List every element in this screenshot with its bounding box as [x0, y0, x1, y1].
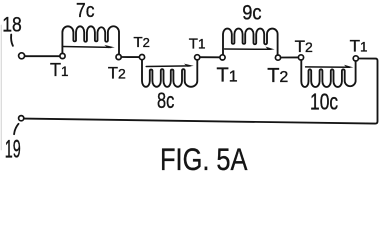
arrow 10c [306, 66, 350, 68]
node T1 of 7c [60, 53, 65, 58]
svg-text:T1: T1 [217, 65, 238, 87]
node T2 of 8c [139, 55, 144, 60]
arrow 8c [146, 65, 190, 68]
node T2 of 7c [116, 54, 121, 59]
svg-text:T2: T2 [267, 65, 288, 87]
node T1 of 9c [220, 55, 225, 60]
arrow 7c [63, 46, 111, 49]
svg-text:7c: 7c [76, 0, 95, 22]
wire [121, 56, 139, 58]
wire [25, 55, 60, 57]
svg-text:T2: T2 [295, 37, 313, 56]
svg-text:T2: T2 [108, 65, 126, 83]
svg-text:8c: 8c [157, 88, 174, 113]
svg-text:FIG. 5A: FIG. 5A [160, 141, 248, 174]
wire [200, 56, 220, 58]
svg-text:T2: T2 [134, 34, 150, 51]
node T1 of 10c [353, 56, 358, 61]
inductor 7c [62, 26, 119, 54]
node T1 of 8c [195, 55, 200, 60]
svg-text:T1: T1 [350, 37, 368, 56]
node T2 of 10c [298, 55, 303, 60]
wire [281, 56, 299, 58]
inductor 10c [301, 60, 355, 87]
node T2 of 9c [275, 55, 280, 60]
inductor 9c [223, 29, 278, 56]
inductor 8c [142, 59, 197, 87]
svg-text:9c: 9c [242, 1, 261, 24]
lead line 19 [14, 124, 18, 134]
node terminal 18 [19, 53, 25, 59]
svg-text:18: 18 [2, 13, 22, 36]
svg-text:T1: T1 [189, 35, 206, 52]
wire right side down and bottom [24, 59, 378, 124]
svg-text:T1: T1 [50, 60, 69, 80]
svg-text:19: 19 [5, 136, 21, 164]
node terminal 19 [19, 116, 24, 121]
svg-text:10c: 10c [310, 89, 338, 115]
lead line 18 [11, 35, 13, 46]
arrow 9c [225, 48, 271, 50]
